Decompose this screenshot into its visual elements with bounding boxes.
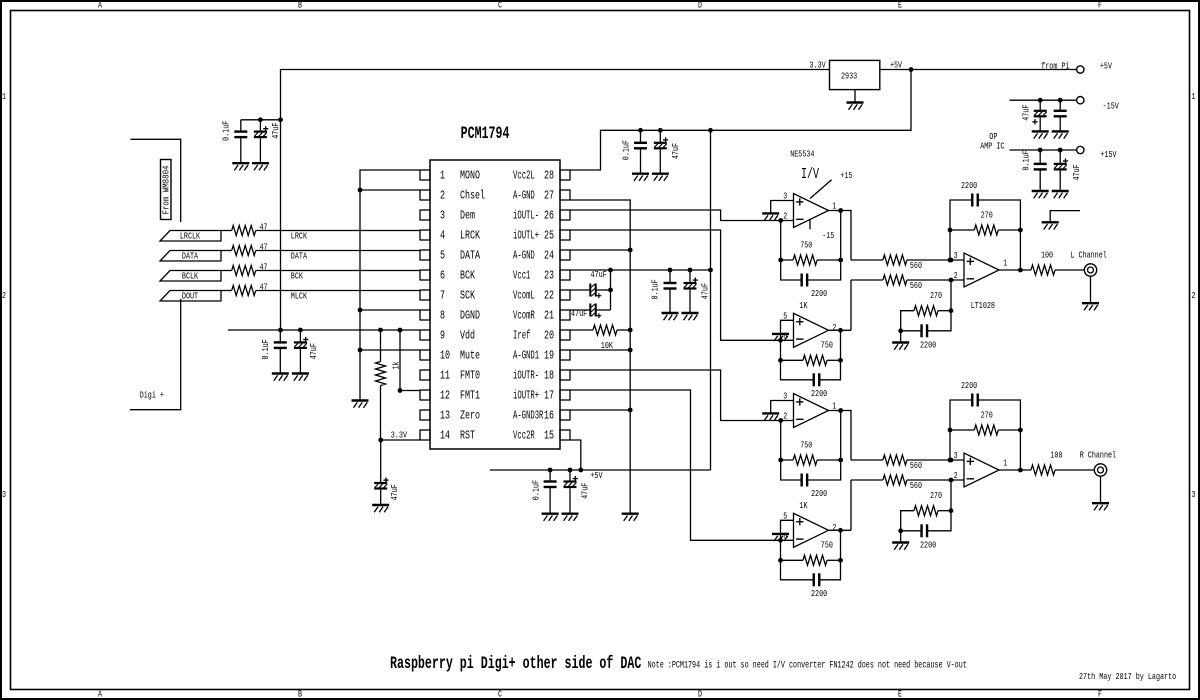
capacitor 47uF (-15V) <box>1021 100 1047 131</box>
ground (op A (L-) +input) <box>762 213 779 220</box>
capacitor 2200 (feedback op A (L-)) <box>781 260 841 299</box>
capacitor 47uF (+5V bottom) <box>564 470 591 514</box>
ground (jack R Channel) <box>1092 503 1109 510</box>
wire +5V vertical to Vcc1 <box>710 130 712 470</box>
svg-text:1: 1 <box>1003 458 1007 469</box>
svg-text:F: F <box>1098 0 1102 11</box>
capacitor 47uF (+15V) <box>1054 150 1082 191</box>
svg-text:iOUTR+: iOUTR+ <box>513 389 539 403</box>
wire output (op A (L-)) <box>829 208 852 260</box>
label -15 (op A supply) with stub <box>810 219 835 241</box>
wire +5V rail below IC <box>490 468 711 481</box>
wire output (op B (L+)) <box>829 328 852 333</box>
svg-text:17: 17 <box>544 389 554 403</box>
pin 21 VcomR <box>513 309 570 323</box>
pin 18 iOUTR- <box>513 369 570 383</box>
wire +input to ground (op C (R-)) <box>771 401 794 414</box>
svg-text:270: 270 <box>930 490 942 501</box>
wire A-GND rail <box>570 200 633 514</box>
svg-text:2: 2 <box>954 270 958 281</box>
terminal -15V <box>1077 97 1119 112</box>
wire 3.3V to RST pin14 <box>378 430 420 443</box>
svg-text:560: 560 <box>910 480 922 491</box>
resistor 270 (feedback R) <box>948 409 1023 472</box>
ground (comp L) <box>892 343 909 350</box>
svg-text:11: 11 <box>440 369 450 383</box>
svg-text:Mute: Mute <box>460 349 480 363</box>
svg-text:F: F <box>1098 689 1102 700</box>
svg-text:B: B <box>298 0 302 11</box>
svg-text:C: C <box>498 689 502 700</box>
svg-text:AMP IC: AMP IC <box>980 141 1005 152</box>
ground (0.1uF +15V) <box>1032 191 1049 198</box>
svg-text:from Pi: from Pi <box>1041 60 1070 71</box>
ground (2933) <box>847 90 864 110</box>
svg-text:VcomL: VcomL <box>513 289 535 303</box>
svg-text:3: 3 <box>954 450 958 461</box>
capacitor 2200 (comp to gnd L) <box>901 311 951 351</box>
ground (cap -15V second) <box>1052 131 1069 138</box>
resistor 560 (L to pin3) <box>851 255 964 271</box>
svg-text:D: D <box>698 0 702 11</box>
svg-text:D: D <box>698 689 702 700</box>
wire Vcc2R pin15 to +5V <box>570 440 581 470</box>
svg-text:+5V: +5V <box>1100 60 1112 71</box>
svg-text:FMT0: FMT0 <box>460 369 480 383</box>
pin 10 Mute <box>420 349 480 363</box>
ground (0.1uF +5V top) <box>632 174 649 181</box>
svg-text:2200: 2200 <box>811 488 827 499</box>
ground (op supplies) <box>1042 222 1059 229</box>
svg-text:NE5534: NE5534 <box>790 149 815 160</box>
label OP AMP IC <box>980 131 1005 152</box>
svg-text:I/V: I/V <box>801 167 819 183</box>
svg-text:47uF: 47uF <box>591 269 607 280</box>
svg-text:560: 560 <box>910 260 922 271</box>
svg-text:From WM8804: From WM8804 <box>161 165 172 214</box>
svg-text:+15: +15 <box>840 170 852 181</box>
svg-text:Vcc1: Vcc1 <box>513 269 530 283</box>
resistor 750 (feedback op B (L+)) <box>778 330 843 365</box>
svg-text:4: 4 <box>440 229 445 243</box>
wire output (op C (R-)) <box>829 408 852 460</box>
svg-text:3.3V: 3.3V <box>391 430 407 441</box>
ground (47uF +15V) <box>1052 191 1069 198</box>
resistor 270 (feedback L) <box>948 209 1023 272</box>
svg-text:270: 270 <box>930 290 942 301</box>
capacitor 47uF (RST) <box>374 440 400 505</box>
pin 11 FMT0 <box>420 369 480 383</box>
capacitor 47uF (Vdd bus) <box>294 330 319 374</box>
resistor 10K (Iref) <box>570 325 630 351</box>
resistor 100 (R) <box>1031 450 1094 476</box>
svg-text:12: 12 <box>440 389 450 403</box>
wire Vcc1 pin23 <box>570 268 713 273</box>
capacitor 0.1uF (+5V bottom) <box>531 470 557 514</box>
capacitor 0.1uF (+15V) <box>1021 150 1047 191</box>
wire +15V rail <box>1010 148 1077 153</box>
svg-text:1: 1 <box>1003 258 1007 269</box>
wire iOUTR- pin18 to op-amp C <box>570 370 794 423</box>
wire +input to ground (op A (L-)) <box>771 201 794 214</box>
op-amp NE5534 B (L+) <box>783 310 836 347</box>
pin 25 iOUTL+ <box>513 229 570 243</box>
svg-text:LRCK: LRCK <box>460 229 480 243</box>
resistor 560 (R to pin2) <box>850 480 852 530</box>
ground (DGND bus) <box>352 401 369 408</box>
resistor 100 (L) <box>1031 250 1084 276</box>
pin 20 Iref <box>513 329 570 343</box>
svg-text:LT1028: LT1028 <box>971 300 996 311</box>
pin 22 VcomL <box>513 289 570 303</box>
svg-text:2200: 2200 <box>961 180 977 191</box>
wire output (op D (R+)) <box>829 528 852 533</box>
svg-text:10: 10 <box>440 349 450 363</box>
input flag LRCLK <box>160 231 221 242</box>
input flag BCLK <box>160 271 221 282</box>
ground (47uF -15V) <box>1032 131 1049 138</box>
svg-text:0.1uF: 0.1uF <box>1021 150 1032 170</box>
svg-text:2: 2 <box>832 322 836 333</box>
wire comp gnd drop R <box>900 531 902 543</box>
svg-text:270: 270 <box>981 409 993 420</box>
svg-text:16: 16 <box>544 409 554 423</box>
pin 28 Vcc2L <box>513 169 570 183</box>
ground (47uF top-left) <box>252 163 269 170</box>
svg-text:750: 750 <box>800 239 812 250</box>
svg-text:2200: 2200 <box>920 340 936 351</box>
regulator 2933 <box>810 59 903 89</box>
svg-text:A-GND1: A-GND1 <box>513 349 539 363</box>
wire net LRCK to PCM1794 <box>256 230 420 241</box>
svg-text:BCLK: BCLK <box>182 271 198 282</box>
pin 13 Zero <box>420 409 480 423</box>
wire iOUTR+ pin17 to op-amp D <box>570 390 794 543</box>
svg-text:RST: RST <box>460 429 475 443</box>
svg-text:0.1uF: 0.1uF <box>650 279 661 299</box>
resistor 1k (RST pull-up) <box>376 330 402 440</box>
svg-text:DATA: DATA <box>182 251 198 262</box>
svg-text:DGND: DGND <box>460 309 480 323</box>
svg-text:27: 27 <box>544 189 554 203</box>
svg-text:13: 13 <box>440 409 450 423</box>
capacitor 0.1uF (3.3V top) <box>221 120 248 163</box>
capacitor 0.1uF (+5V top) <box>621 130 647 173</box>
pin 24 A-GND <box>513 249 570 263</box>
svg-text:100: 100 <box>1050 450 1062 461</box>
svg-text:2: 2 <box>954 470 958 481</box>
resistor 47 (LRCK) <box>221 221 268 235</box>
svg-text:VcomR: VcomR <box>513 309 535 323</box>
input flag DOUT <box>160 291 221 302</box>
svg-text:2200: 2200 <box>811 588 827 599</box>
resistor 270 (comp to gnd L) <box>898 280 953 333</box>
resistor 750 (feedback op C (R-)) <box>778 411 843 466</box>
svg-text:0.1uF: 0.1uF <box>531 480 542 500</box>
wire -15V rail <box>1010 98 1077 103</box>
svg-text:0.1uF: 0.1uF <box>621 140 632 160</box>
svg-text:B: B <box>298 689 302 700</box>
svg-text:A: A <box>98 0 102 11</box>
connector bracket Digi+ <box>130 139 181 409</box>
svg-text:-15: -15 <box>822 230 834 241</box>
pin 17 iOUTR+ <box>513 389 570 403</box>
svg-text:21: 21 <box>544 309 554 323</box>
input flag DATA <box>160 251 221 262</box>
wire +input to ground (op B (L+)) <box>781 320 794 340</box>
svg-text:A-GND3R: A-GND3R <box>513 409 543 423</box>
svg-text:Note :PCM1794 is i out so need: Note :PCM1794 is i out so need I/V conve… <box>648 659 967 671</box>
svg-text:MONO: MONO <box>460 169 480 183</box>
wire +input to ground (op D (R+)) <box>781 520 794 540</box>
pin 15 Vcc2R <box>513 429 570 443</box>
connector box From WM8804 <box>161 160 172 220</box>
ground (0.1uF +5V bottom) <box>542 514 559 521</box>
svg-text:47uF: 47uF <box>389 484 400 500</box>
svg-text:3: 3 <box>2 489 6 500</box>
ground (47uF +5V top) <box>652 174 669 181</box>
svg-text:BCK: BCK <box>460 269 475 283</box>
pin 8 DGND <box>420 309 480 323</box>
svg-text:+5V: +5V <box>890 59 902 70</box>
svg-text:A-GND: A-GND <box>513 249 535 263</box>
svg-text:2: 2 <box>2 290 6 301</box>
wire +5V from Pi <box>880 67 1077 72</box>
wire 3.3V rail <box>241 70 830 331</box>
svg-text:1: 1 <box>1192 91 1196 102</box>
svg-text:2: 2 <box>440 189 445 203</box>
svg-text:A-GND: A-GND <box>513 189 535 203</box>
svg-text:24: 24 <box>544 249 554 263</box>
svg-text:A: A <box>98 689 102 700</box>
op-amp NE5534 D (R+) <box>783 510 836 547</box>
svg-text:3: 3 <box>440 209 445 223</box>
svg-text:27th May 2017 by Lagarto: 27th May 2017 by Lagarto <box>1079 671 1176 682</box>
svg-text:15: 15 <box>544 429 554 443</box>
ground (47uF +5V bottom) <box>562 514 579 521</box>
svg-text:5: 5 <box>440 249 445 263</box>
svg-text:LRCK: LRCK <box>291 230 307 241</box>
svg-text:18: 18 <box>544 369 554 383</box>
svg-text:14: 14 <box>440 429 450 443</box>
svg-text:E: E <box>898 689 902 700</box>
resistor 560 (L to pin2) <box>850 280 852 330</box>
resistor 750 (feedback op A (L-)) <box>778 211 843 266</box>
terminal from Pi +5V <box>1041 60 1112 73</box>
capacitor 2200 (feedback op C (R-)) <box>781 460 841 499</box>
svg-text:R Channel: R Channel <box>1080 450 1117 461</box>
svg-text:560: 560 <box>910 280 922 291</box>
svg-text:1K: 1K <box>799 300 807 311</box>
svg-text:25: 25 <box>544 229 554 243</box>
wire iOUTL- pin26 to op-amp A <box>570 210 794 223</box>
resistor 47 (MLCK) <box>221 281 268 295</box>
svg-text:C: C <box>498 0 502 11</box>
pin 12 FMT1 <box>420 389 480 403</box>
svg-text:iOUTL-: iOUTL- <box>513 209 539 223</box>
wire comp gnd drop L <box>900 331 902 343</box>
svg-text:MLCK: MLCK <box>291 290 307 301</box>
svg-text:Iref: Iref <box>513 329 530 343</box>
svg-text:2: 2 <box>1192 290 1196 301</box>
capacitor 2200 (feedback op B (L+)) <box>781 360 841 399</box>
pin 3 Dem <box>420 209 475 223</box>
op-amp LT1028 R <box>954 450 1008 487</box>
svg-text:3: 3 <box>954 250 958 261</box>
terminal jack L Channel <box>1070 250 1107 276</box>
svg-text:9: 9 <box>440 329 445 343</box>
pin 1 MONO <box>420 169 480 183</box>
svg-text:Raspberry pi Digi+ other side: Raspberry pi Digi+ other side of DAC <box>390 655 641 674</box>
resistor 560 (R to pin3) <box>851 455 964 471</box>
wire ground stub (op supplies) <box>1050 211 1080 223</box>
svg-text:20: 20 <box>544 329 554 343</box>
capacitor 47uF (VcomL) <box>570 269 613 310</box>
svg-text:750: 750 <box>821 540 833 551</box>
svg-text:1: 1 <box>440 169 445 183</box>
svg-text:47uF: 47uF <box>1071 164 1082 180</box>
svg-text:3: 3 <box>1192 489 1196 500</box>
svg-text:28: 28 <box>544 169 554 183</box>
wire 3.3V bus (Vdd) <box>228 328 420 333</box>
wire output node R <box>999 469 1031 471</box>
ground (47uF Vcc1) <box>682 313 699 320</box>
svg-text:2933: 2933 <box>841 70 857 81</box>
capacitor 0.1uF (Vdd bus) <box>260 330 287 374</box>
IC PCM1794 body <box>430 125 560 449</box>
resistor 47 (DATA) <box>221 241 268 255</box>
svg-text:DOUT: DOUT <box>182 291 198 302</box>
svg-text:SCK: SCK <box>460 289 475 303</box>
svg-text:Vcc2R: Vcc2R <box>513 429 535 443</box>
svg-text:Vdd: Vdd <box>460 329 475 343</box>
svg-text:2200: 2200 <box>811 288 827 299</box>
svg-text:0.1uF: 0.1uF <box>260 339 271 359</box>
wire jack ground drop R Channel <box>1100 476 1102 503</box>
op-amp NE5534 A (L-) <box>783 191 836 228</box>
ground (A-GND rail) <box>622 514 639 521</box>
ground (0.1uF Vcc1) <box>662 313 679 320</box>
pin 14 RST <box>420 429 475 443</box>
pin 23 Vcc1 <box>513 269 570 283</box>
svg-text:Vcc2L: Vcc2L <box>513 169 535 183</box>
svg-text:750: 750 <box>821 340 833 351</box>
pin 2 Chsel <box>420 189 485 203</box>
capacitor 2200 (feedback R) <box>950 380 1020 470</box>
ground (0.1uF Vdd) <box>272 374 289 381</box>
wire output node L <box>999 269 1031 271</box>
ground (op D (R+) +input) <box>772 534 789 541</box>
terminal +15V <box>1077 146 1117 160</box>
pin 7 SCK <box>420 289 475 303</box>
resistor 270 (comp to gnd R) <box>898 480 953 533</box>
svg-text:7: 7 <box>440 289 445 303</box>
capacitor 47uF (+5V top) <box>654 130 681 173</box>
wire net BCK to PCM1794 <box>256 270 420 281</box>
svg-text:E: E <box>898 0 902 11</box>
svg-text:47uF: 47uF <box>571 308 587 319</box>
svg-text:1K: 1K <box>799 500 807 511</box>
svg-text:1: 1 <box>2 91 6 102</box>
svg-text:2200: 2200 <box>961 380 977 391</box>
capacitor 47uF (3.3V top) <box>254 120 281 163</box>
svg-text:2: 2 <box>783 411 787 422</box>
svg-text:750: 750 <box>800 439 812 450</box>
ground (comp R) <box>892 543 909 550</box>
ground (jack L Channel) <box>1082 303 1099 310</box>
svg-text:47uF: 47uF <box>270 123 281 139</box>
pin 26 iOUTL- <box>513 209 570 223</box>
pin 9 Vdd <box>420 329 475 343</box>
svg-text:0.1uF: 0.1uF <box>221 121 232 141</box>
pin 5 DATA <box>420 249 481 263</box>
label I/V with leader <box>801 167 832 198</box>
pin 6 BCK <box>420 269 475 283</box>
svg-text:100: 100 <box>1041 250 1053 261</box>
svg-text:DATA: DATA <box>291 250 307 261</box>
svg-text:BCK: BCK <box>291 270 303 281</box>
capacitor (-15V second) <box>1054 100 1067 131</box>
svg-text:iOUTL+: iOUTL+ <box>513 229 539 243</box>
svg-text:26: 26 <box>544 209 554 223</box>
pin 16 A-GND3R <box>513 409 570 423</box>
svg-text:-15V: -15V <box>1103 100 1119 111</box>
svg-text:+15V: +15V <box>1100 149 1116 160</box>
capacitor 2200 (comp to gnd R) <box>901 511 951 551</box>
pin 19 A-GND1 <box>513 349 570 363</box>
svg-text:3.3V: 3.3V <box>810 59 826 70</box>
resistor 47 (BCK) <box>221 261 268 275</box>
svg-text:19: 19 <box>544 349 554 363</box>
wire net MLCK to PCM1794 <box>256 290 420 301</box>
svg-text:2: 2 <box>832 522 836 533</box>
wire iOUTL+ pin25 to op-amp B <box>570 230 794 343</box>
svg-text:270: 270 <box>981 209 993 220</box>
svg-text:22: 22 <box>544 289 554 303</box>
svg-text:Zero: Zero <box>460 409 480 423</box>
svg-text:47uF: 47uF <box>1021 105 1032 121</box>
capacitor 47uF (VcomR) <box>570 304 611 319</box>
svg-text:FMT1: FMT1 <box>460 389 480 403</box>
wire 3.3V to FMT1 pin12 <box>398 330 420 393</box>
svg-text:47uF: 47uF <box>670 143 681 159</box>
svg-text:iOUTR-: iOUTR- <box>513 369 539 383</box>
terminal jack R Channel <box>1080 450 1117 476</box>
pin 27 A-GND <box>513 189 570 203</box>
ground (47uF Vdd) <box>292 374 309 381</box>
svg-text:DATA: DATA <box>460 249 481 263</box>
ground (op B (L+) +input) <box>772 334 789 341</box>
svg-text:2: 2 <box>783 211 787 222</box>
capacitor 2200 (feedback op D (R+)) <box>781 560 841 599</box>
svg-text:+5V: +5V <box>590 470 602 481</box>
capacitor 2200 (feedback L) <box>950 180 1020 270</box>
svg-text:Dem: Dem <box>460 209 475 223</box>
op-amp NE5534 C (R-) <box>783 391 836 428</box>
capacitor 0.1uF (Vcc1) <box>650 270 677 313</box>
svg-text:47uF: 47uF <box>580 483 591 499</box>
wire DGND bus <box>358 170 420 401</box>
svg-text:47uF: 47uF <box>308 343 319 359</box>
wire +5V down-left rail <box>570 70 911 171</box>
ground (op C (R-) +input) <box>762 413 779 420</box>
capacitor 47uF (Vcc1) <box>684 270 711 313</box>
svg-text:2200: 2200 <box>811 388 827 399</box>
ground (RST cap) <box>372 505 389 512</box>
op-amp LT1028 L <box>954 250 1008 287</box>
svg-text:47uF: 47uF <box>700 283 711 299</box>
svg-text:8: 8 <box>440 309 445 323</box>
